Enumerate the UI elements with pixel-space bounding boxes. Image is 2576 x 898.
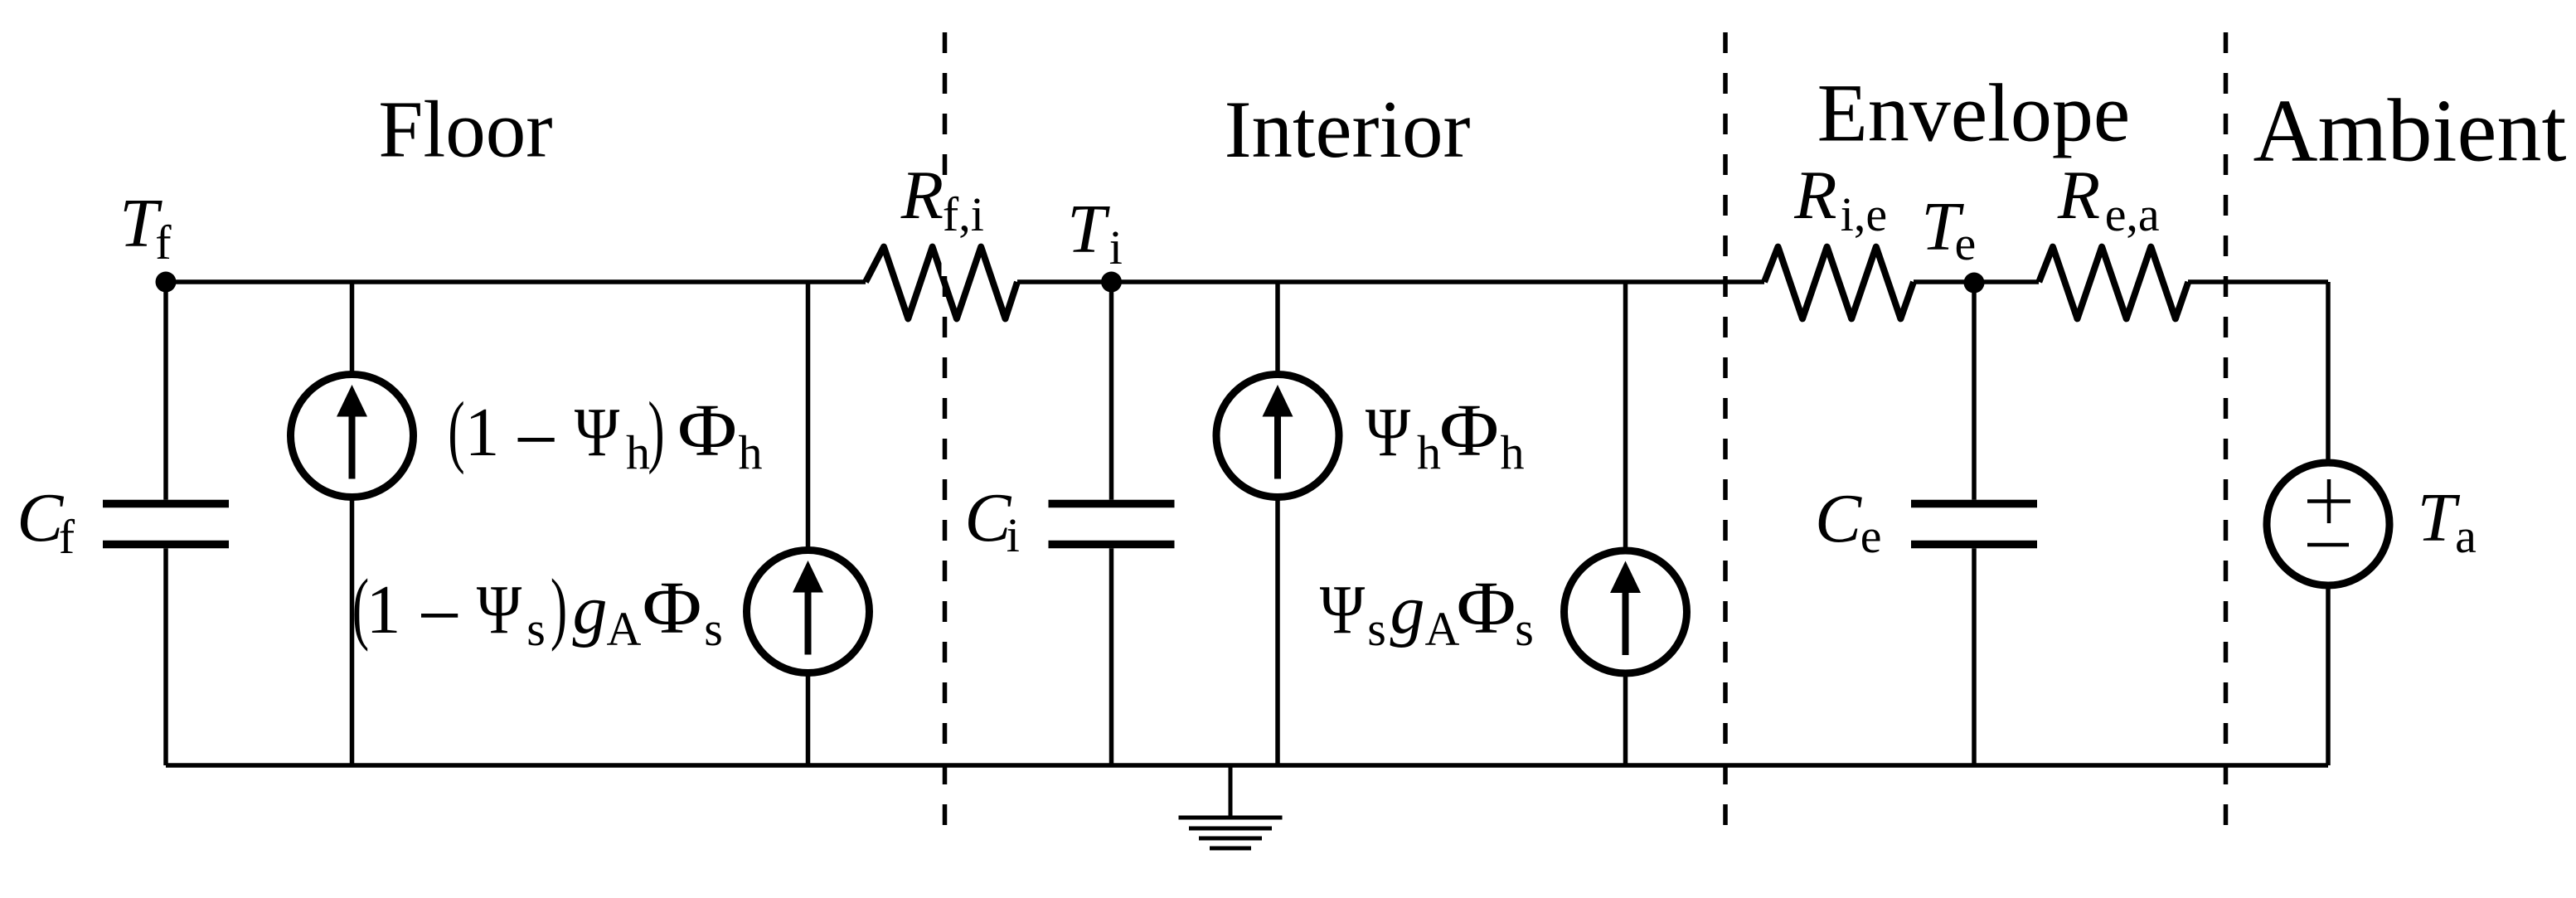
- svg-text:s: s: [1515, 602, 1534, 656]
- svg-text:g: g: [573, 571, 608, 648]
- svg-text:Ψ: Ψ: [575, 394, 620, 471]
- svg-text:h: h: [626, 425, 650, 479]
- svg-text:f: f: [155, 216, 172, 269]
- svg-text:Ambient: Ambient: [2253, 82, 2567, 181]
- svg-text:−: −: [417, 571, 462, 659]
- svg-text:1: 1: [465, 394, 500, 471]
- svg-text:Ψ: Ψ: [477, 571, 522, 648]
- svg-text:Envelope: Envelope: [1817, 67, 2131, 159]
- svg-text:i: i: [1007, 508, 1020, 562]
- svg-text:C: C: [17, 479, 64, 556]
- svg-text:h: h: [1501, 425, 1525, 479]
- svg-text:A: A: [607, 602, 642, 656]
- svg-text:a: a: [2455, 509, 2477, 563]
- svg-text:R: R: [1793, 157, 1836, 234]
- svg-text:R: R: [2057, 157, 2100, 234]
- svg-text:(: (: [448, 385, 464, 475]
- svg-text:f,i: f,i: [943, 187, 984, 241]
- svg-text:e: e: [1955, 216, 1977, 270]
- svg-text:Ψ: Ψ: [1320, 571, 1366, 648]
- svg-text:s: s: [704, 602, 723, 656]
- svg-text:C: C: [1815, 480, 1862, 557]
- svg-text:f: f: [59, 510, 75, 564]
- svg-text:C: C: [964, 479, 1011, 556]
- svg-text:): ): [648, 385, 664, 475]
- svg-text:1: 1: [366, 571, 401, 648]
- svg-text:Φ: Φ: [1457, 567, 1516, 649]
- svg-text:e: e: [1860, 509, 1882, 563]
- svg-text:g: g: [1390, 571, 1425, 648]
- svg-text:Φ: Φ: [1439, 390, 1499, 472]
- svg-text:Ψ: Ψ: [1366, 394, 1411, 471]
- svg-text:Floor: Floor: [378, 85, 552, 174]
- svg-text:A: A: [1425, 602, 1460, 656]
- svg-text:i: i: [1109, 221, 1123, 274]
- svg-text:Interior: Interior: [1225, 85, 1471, 175]
- svg-text:h: h: [739, 425, 763, 479]
- svg-text:): ): [551, 561, 567, 652]
- svg-text:h: h: [1417, 425, 1441, 479]
- svg-text:s: s: [1367, 602, 1386, 656]
- svg-text:e,a: e,a: [2105, 187, 2160, 241]
- svg-text:−: −: [514, 396, 559, 483]
- svg-text:T: T: [1067, 191, 1110, 268]
- svg-text:i,e: i,e: [1841, 187, 1887, 241]
- svg-text:Φ: Φ: [643, 567, 702, 649]
- svg-text:T: T: [2418, 479, 2461, 556]
- svg-text:R: R: [900, 157, 944, 234]
- svg-text:s: s: [526, 602, 546, 656]
- svg-text:Φ: Φ: [677, 390, 737, 472]
